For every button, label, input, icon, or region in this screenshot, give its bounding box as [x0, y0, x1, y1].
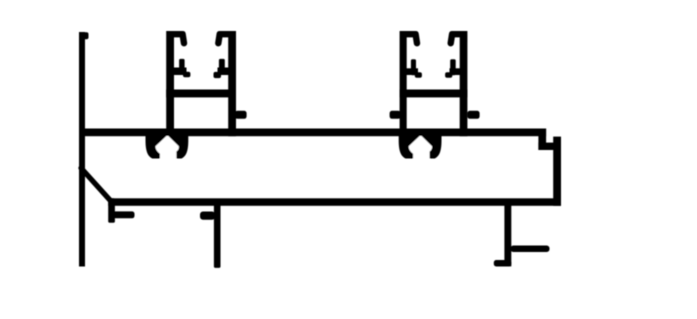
tower 2 right wall [460, 31, 468, 136]
clip 1 inner notch [155, 136, 178, 160]
tower 2 mid-left hook tip [415, 72, 422, 78]
tower 1 mid-right hook arm [218, 68, 231, 76]
tower 1 bridge [166, 90, 236, 98]
tower 2 top-left hook [403, 34, 417, 43]
tower 1 mid-left hook tab [179, 59, 185, 75]
left vertical wall line [79, 32, 85, 267]
bottom left stub tab [113, 211, 135, 218]
tower 2 left side tab [390, 111, 401, 119]
bottom left stub [108, 198, 115, 222]
tower 2 mid-right hook arm [450, 68, 463, 75]
tower 2 right side tab [467, 111, 479, 119]
right end step down [538, 129, 546, 151]
bottom middle leg tab [200, 212, 215, 220]
bottom flange line [108, 198, 561, 206]
bottom right leg [504, 200, 511, 266]
bottom middle leg [214, 200, 221, 268]
top flange line [79, 129, 546, 137]
right edge wall [553, 137, 561, 206]
clip 2 inner notch [409, 136, 432, 160]
tower 1 right wall [228, 31, 236, 136]
right end lower lip [538, 143, 561, 150]
tower 2 mid-right hook tip [445, 72, 452, 78]
tower 2 mid-left hook tab [411, 59, 416, 75]
tower 2 mid-right hook tab [450, 59, 456, 75]
top bump on left vertical [83, 32, 89, 39]
tower 1 top-right hook [218, 34, 232, 43]
tower 1 mid-left hook tip [183, 72, 190, 78]
bottom right leg tab [511, 246, 550, 253]
clip 2 body [399, 129, 442, 159]
tower 1 top-left hook [170, 34, 184, 43]
bottom right foot [494, 260, 512, 267]
tower 2 left wall [400, 31, 407, 136]
clip 1 body [146, 129, 189, 159]
tower 2 bridge [400, 90, 468, 98]
diagonal brace [81, 168, 112, 202]
tower 1 left wall [166, 31, 174, 136]
tower 1 right side tab [235, 111, 247, 119]
tower 1 mid-right hook tip [214, 72, 222, 78]
tower 1 mid-left hook arm [172, 68, 187, 76]
tower 1 mid-right hook tab [219, 59, 225, 75]
tower 2 top-right hook [451, 34, 464, 43]
tower 2 mid-left hook arm [405, 68, 418, 75]
